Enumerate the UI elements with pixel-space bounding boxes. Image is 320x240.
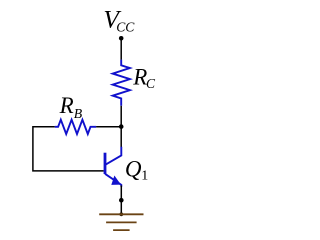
svg-text:C: C — [146, 76, 156, 91]
wire Vcc to RC — [120, 38, 122, 60]
label Q1 — [125, 156, 148, 183]
label RB — [59, 93, 83, 121]
node junction dot collector feedback — [119, 124, 124, 129]
ground symbol — [99, 212, 143, 230]
svg-text:R: R — [59, 93, 74, 118]
label RC — [132, 64, 156, 91]
wire emitter to ground — [120, 186, 122, 215]
wire junction to collector — [120, 127, 122, 148]
svg-text:1: 1 — [141, 169, 148, 184]
wire RC to collector junction — [120, 106, 122, 127]
wire feedback loop: RB left lead, left rail, base wire — [33, 127, 104, 171]
node Vcc terminal dot — [119, 36, 124, 41]
svg-text:Q: Q — [125, 156, 142, 181]
power label VCC — [103, 5, 135, 35]
svg-text:CC: CC — [116, 19, 135, 34]
resistor RC — [113, 60, 130, 106]
svg-text:R: R — [132, 64, 147, 89]
transistor Q1 base bar — [104, 153, 107, 174]
transistor Q1 emitter lead with arrow — [105, 174, 121, 187]
node emitter ground dot — [119, 198, 124, 203]
svg-text:B: B — [74, 106, 83, 121]
wire junction to RB right lead — [96, 126, 121, 128]
resistor RB — [55, 120, 96, 134]
transistor Q1 collector lead — [105, 147, 121, 165]
